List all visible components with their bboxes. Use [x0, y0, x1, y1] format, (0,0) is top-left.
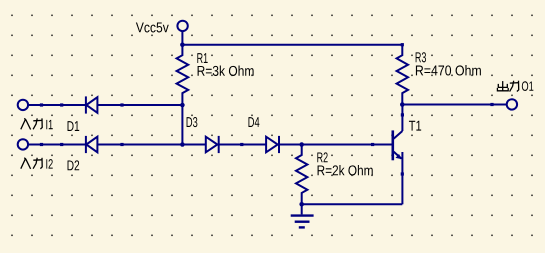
- junction square on I2 wire: [40, 143, 43, 146]
- resistor R3: [397, 45, 408, 105]
- junction square on D1 wire: [120, 103, 123, 106]
- wire input I2 to D2: [27, 144, 86, 146]
- node D2/D3 junction: [180, 142, 185, 147]
- diode D1: [86, 96, 98, 113]
- label D2: [68, 160, 80, 170]
- label output O1 (kanji): [497, 81, 533, 92]
- wire R3 node to output: [402, 104, 506, 106]
- resistor R1: [177, 45, 189, 105]
- label D3: [187, 117, 198, 127]
- label D1: [68, 121, 80, 131]
- wire input I1 to D1: [27, 104, 86, 106]
- wire D2 to D3 node: [97, 144, 205, 146]
- label R3 value: [416, 65, 481, 76]
- junction square on base wire: [371, 143, 374, 146]
- label input I2 (kanji): [21, 158, 53, 169]
- wire D3 to D4: [219, 144, 266, 146]
- power terminal Vcc5v: [177, 21, 187, 31]
- label R1: [197, 53, 207, 63]
- label R3: [416, 52, 426, 62]
- label D4: [248, 117, 259, 127]
- node R1 bottom junction: [180, 103, 185, 108]
- ground: [291, 204, 314, 227]
- diode D2: [86, 136, 98, 153]
- wire top rail to R3: [182, 44, 402, 46]
- node R3 bottom junction: [400, 102, 405, 107]
- diode D3: [206, 136, 219, 153]
- input terminal I1: [18, 100, 28, 110]
- junction square on I1 wire: [60, 103, 63, 106]
- junction square on emitter wire: [401, 172, 404, 175]
- wire D1 to R1 node: [97, 104, 182, 106]
- junction square between D3 and D4: [240, 143, 243, 146]
- node R2 top junction: [299, 142, 304, 147]
- wire collector up to R3 node: [401, 105, 403, 132]
- diode D4: [266, 136, 279, 153]
- resistor R2: [296, 145, 307, 205]
- wire R2 node to T1 base: [302, 144, 393, 146]
- label input I1 (kanji): [21, 118, 53, 129]
- junction square on collector wire: [401, 113, 404, 116]
- wire Vcc stub: [181, 31, 183, 45]
- junction square on D2 wire: [120, 143, 123, 146]
- label Vcc5v: [136, 22, 169, 32]
- node ground junction: [299, 202, 304, 207]
- label R2 value: [318, 165, 373, 176]
- wire R1 node down to I2 rail: [181, 105, 183, 145]
- input terminal I2: [18, 139, 28, 149]
- junction square on I2 wire: [60, 143, 63, 146]
- node Vcc/R1/rail junction: [180, 42, 185, 47]
- wire emitter rail to ground: [302, 203, 403, 205]
- transistor T1: [393, 130, 403, 204]
- label R2: [317, 152, 327, 162]
- output terminal O1: [507, 99, 517, 109]
- junction square on output wire: [490, 103, 493, 106]
- label T1: [409, 121, 421, 131]
- junction square on I1 wire: [40, 103, 43, 106]
- wire D4 to R2 node: [279, 144, 302, 146]
- label R1 value: [198, 65, 254, 76]
- junction square at R3 top corner: [401, 43, 404, 46]
